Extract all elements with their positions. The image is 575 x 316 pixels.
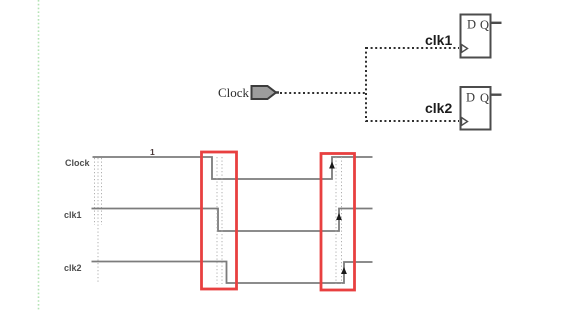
wire Q1 output stub <box>492 22 502 24</box>
green margin guide line <box>38 0 40 311</box>
flip-flop U1 <box>461 15 491 58</box>
wire Clock net horizontal <box>280 92 366 94</box>
waveform trace clk2 <box>92 262 373 284</box>
flip-flop U2 <box>461 87 491 130</box>
red highlight rectangle 2 <box>321 154 355 291</box>
svg-text:1: 1 <box>150 147 155 157</box>
svg-text:clk2: clk2 <box>64 263 82 273</box>
grid dotted lines inside highlight 2 <box>336 157 342 284</box>
svg-text:clk1: clk1 <box>64 210 82 220</box>
wire branch to clk2 <box>366 120 459 122</box>
svg-text:D: D <box>467 18 476 32</box>
svg-text:Q: Q <box>480 18 489 32</box>
svg-text:clk2: clk2 <box>425 100 452 116</box>
svg-text:D: D <box>466 91 475 105</box>
rising edge arrow clk2 <box>341 267 347 274</box>
red highlight rectangle 1 <box>202 152 237 289</box>
svg-text:Clock: Clock <box>65 158 91 168</box>
wire Q2 output stub <box>492 93 502 95</box>
grid dotted lines inside highlight 1 <box>217 157 222 284</box>
flip-flop U2 clock pin triangle <box>462 118 468 126</box>
waveform trace Clock <box>93 157 373 179</box>
waveform trace clk1 <box>92 209 373 232</box>
rising edge arrow clk1 <box>336 213 342 220</box>
wire Clock net vertical branch <box>365 47 367 122</box>
grid dotted lines at waveform start <box>95 158 102 284</box>
flip-flop U1 clock pin triangle <box>462 45 468 53</box>
wire branch to clk1 <box>366 47 459 49</box>
rising edge arrow Clock <box>329 162 335 169</box>
svg-text:clk1: clk1 <box>425 32 452 48</box>
input port symbol Clock <box>252 86 280 99</box>
svg-text:Q: Q <box>480 91 489 105</box>
svg-text:Clock: Clock <box>218 85 250 100</box>
